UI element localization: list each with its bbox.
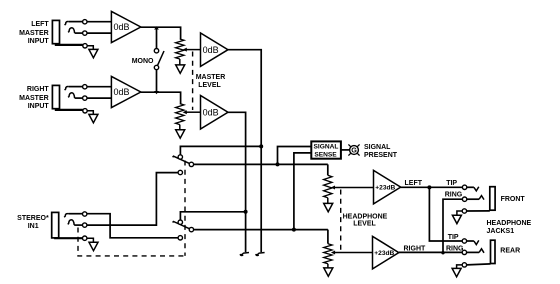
wire <box>429 187 462 241</box>
wire <box>156 27 158 48</box>
ground <box>324 203 333 211</box>
wire <box>467 198 479 200</box>
switch contact ring spring J3 <box>68 220 75 225</box>
svg-text:G: G <box>351 146 357 155</box>
svg-text:LEVEL: LEVEL <box>353 220 376 227</box>
wiper R1 <box>186 49 201 51</box>
switch contact front tip spring <box>474 187 479 191</box>
ground <box>89 114 98 122</box>
wire <box>327 164 329 175</box>
svg-text:RIGHT: RIGHT <box>27 86 50 93</box>
wire <box>87 86 111 88</box>
svg-text:RING: RING <box>446 246 464 253</box>
wire <box>87 97 111 99</box>
wire <box>69 21 83 23</box>
wiper R2 <box>186 111 201 113</box>
wire <box>457 265 463 269</box>
wire <box>467 210 490 212</box>
op-amp U6 +23dB left headphone amp <box>374 170 401 204</box>
connector J5 REAR headphone jack <box>491 240 496 263</box>
label HEADPHONE JACKS1 <box>487 220 532 235</box>
wire <box>327 264 329 268</box>
label SIGNAL PRESENT <box>364 144 398 159</box>
svg-text:TIP: TIP <box>448 234 459 241</box>
wire <box>467 186 474 188</box>
node junction right bus to source select <box>244 210 248 214</box>
node junction left to jacks <box>427 185 431 189</box>
wire <box>141 92 181 103</box>
wire left bus <box>228 50 261 253</box>
wire <box>141 27 181 39</box>
wire <box>75 97 83 99</box>
svg-text:HEADPHONE: HEADPHONE <box>343 213 388 220</box>
op-amp U4 0dB master right <box>201 96 229 130</box>
wiper R3 <box>334 187 374 189</box>
svg-text:PRESENT: PRESENT <box>364 152 398 159</box>
svg-text:FRONT: FRONT <box>501 196 526 203</box>
gang line master level <box>192 52 194 111</box>
ground <box>89 49 98 57</box>
switch contact terminal J1 sleeve <box>83 44 87 48</box>
switch contact terminal rear tip <box>462 239 466 243</box>
switch contact terminal front ring <box>462 197 466 201</box>
switch contact terminal rear ring <box>462 250 466 254</box>
wire <box>87 214 178 238</box>
switch contact ring spring J2 <box>68 93 75 98</box>
switch contact terminal J1 tip <box>83 20 87 24</box>
wire <box>69 86 83 88</box>
wire <box>467 251 480 253</box>
ground <box>452 268 461 276</box>
switch contact tip spring J2 <box>65 86 69 90</box>
wire <box>180 146 261 157</box>
svg-text:+23dB: +23dB <box>375 185 395 192</box>
terminal hook left bus <box>256 253 265 256</box>
switch S2b source select right <box>173 220 194 232</box>
switch contact tip spring J1 <box>65 21 69 25</box>
wire <box>179 125 181 130</box>
op-amp U3 0dB master left <box>201 33 229 66</box>
switch contact terminal front sleeve <box>462 209 466 213</box>
switch contact terminal S2a stereo throw <box>178 170 182 174</box>
svg-text:0dB: 0dB <box>114 22 130 32</box>
svg-text:MASTER: MASTER <box>196 74 226 81</box>
switch contact rear tip spring <box>474 240 479 244</box>
wire <box>87 238 94 242</box>
svg-text:SIGNAL: SIGNAL <box>314 143 339 150</box>
svg-text:SENSE: SENSE <box>314 151 337 158</box>
wire <box>467 264 491 265</box>
wire <box>401 186 463 188</box>
svg-text:SIGNAL: SIGNAL <box>364 144 391 151</box>
switch contact terminal J2 tip <box>83 85 87 89</box>
svg-text:MASTER: MASTER <box>19 30 49 37</box>
wire <box>179 59 181 65</box>
svg-text:INPUT: INPUT <box>28 103 50 110</box>
switch contact ring spring J1 <box>68 28 75 33</box>
wire <box>56 43 83 45</box>
switch S2a source select left <box>173 155 194 167</box>
svg-text:MASTER: MASTER <box>19 95 49 102</box>
ground <box>89 242 98 250</box>
label MASTER LEVEL <box>196 74 226 89</box>
wire right bus <box>228 112 246 252</box>
wire <box>327 198 329 204</box>
switch contact terminal front tip <box>462 185 466 189</box>
switch contact terminal J3 sleeve <box>83 236 87 240</box>
wire <box>180 212 245 222</box>
wire <box>399 251 462 253</box>
wire <box>75 32 83 34</box>
lamp DS1 signal present indicator <box>348 144 359 155</box>
wire <box>56 108 83 110</box>
switch S1 MONO <box>154 49 164 92</box>
wire <box>87 32 111 34</box>
node RIGHT MASTER INPUT label <box>19 86 49 110</box>
op-amp U1 0dB left input buffer <box>111 11 140 42</box>
svg-text:0dB: 0dB <box>203 45 219 55</box>
svg-text:LEFT: LEFT <box>31 21 49 28</box>
wire <box>457 211 462 215</box>
switch contact terminal rear sleeve <box>462 263 466 267</box>
ground <box>324 268 333 276</box>
switch contact front ring spring <box>479 196 484 200</box>
svg-text:HEADPHONE: HEADPHONE <box>487 220 532 227</box>
label HEADPHONE LEVEL <box>343 213 388 227</box>
wire <box>443 199 462 252</box>
svg-text:0dB: 0dB <box>114 87 130 97</box>
wire <box>278 147 312 165</box>
potentiometer R2 master level right <box>176 104 184 125</box>
dashed enclosure stereo input <box>78 228 185 256</box>
wire <box>68 213 82 215</box>
wiper R4 <box>334 252 373 254</box>
switch contact terminal J2 ring <box>83 96 87 100</box>
wire <box>194 163 328 165</box>
potentiometer R4 headphone level right <box>324 244 332 264</box>
svg-text:TIP: TIP <box>446 180 457 187</box>
potentiometer R1 master level left <box>176 39 184 59</box>
wire <box>327 230 329 244</box>
wire <box>87 46 93 50</box>
wire <box>87 173 178 226</box>
svg-text:STEREO*: STEREO* <box>17 215 49 222</box>
connector J4 FRONT headphone jack <box>490 187 495 211</box>
node junction left bus to source select <box>259 144 263 148</box>
node junction sense tap left <box>276 162 280 166</box>
wire <box>341 149 349 151</box>
wire <box>87 111 93 115</box>
wire <box>55 237 82 238</box>
svg-text:LEVEL: LEVEL <box>198 82 221 89</box>
node junction mono tap left <box>154 26 159 29</box>
node junction sense tap right <box>292 228 296 232</box>
svg-text:LEFT: LEFT <box>405 180 423 187</box>
svg-text:JACKS1: JACKS1 <box>487 228 515 235</box>
gang line source select <box>184 161 186 256</box>
svg-text:MONO: MONO <box>132 58 154 65</box>
gang line headphone level <box>340 190 342 251</box>
switch contact terminal S2b stereo throw <box>178 236 182 240</box>
switch contact tip spring J3 <box>64 214 68 218</box>
ground <box>176 65 185 73</box>
node junction mono tap right <box>154 91 159 94</box>
switch contact terminal J1 ring <box>83 31 87 35</box>
wire <box>87 21 111 23</box>
switch contact rear ring spring <box>479 249 484 253</box>
op-amp U2 0dB right input buffer <box>111 76 140 107</box>
block U5 SIGNAL SENSE <box>311 141 341 158</box>
svg-text:RING: RING <box>445 191 463 198</box>
svg-text:INPUT: INPUT <box>28 38 50 45</box>
ground <box>176 130 185 138</box>
potentiometer R3 headphone level left <box>324 175 332 198</box>
node LEFT MASTER INPUT label <box>19 21 49 45</box>
wire <box>294 153 311 230</box>
connector J1 left master input jack <box>52 20 59 43</box>
wire <box>467 240 474 242</box>
node junction right to rear ring <box>441 251 444 254</box>
svg-text:IN1: IN1 <box>28 223 39 230</box>
connector J3 stereo input jack <box>52 212 59 238</box>
op-amp U7 +23dB right headphone amp <box>373 236 399 269</box>
svg-text:RIGHT: RIGHT <box>404 245 427 252</box>
wire <box>74 224 82 226</box>
svg-text:REAR: REAR <box>500 248 520 255</box>
terminal hook right bus <box>240 253 249 256</box>
node STEREO IN1 label <box>17 215 49 230</box>
ground <box>452 215 461 223</box>
wire <box>194 229 328 231</box>
switch contact terminal J3 ring <box>83 223 87 227</box>
svg-text:0dB: 0dB <box>203 107 219 117</box>
switch contact terminal J2 sleeve <box>83 109 87 113</box>
switch contact terminal J3 tip <box>83 212 87 216</box>
svg-text:+23dB: +23dB <box>374 250 394 257</box>
connector J2 right master input jack <box>52 85 59 108</box>
